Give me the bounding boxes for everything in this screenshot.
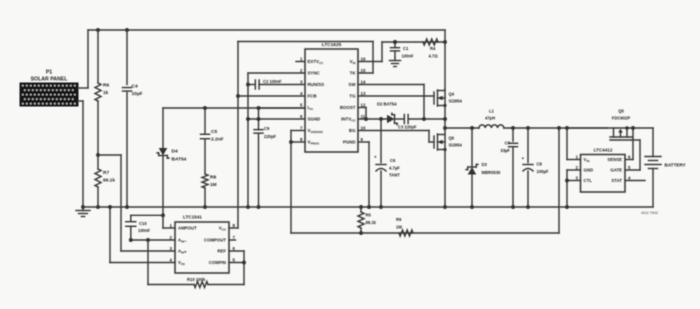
wire: L1 to output rail	[504, 127, 607, 129]
capacitor C3 220pF	[403, 115, 405, 124]
svg-text:AIN−: AIN−	[178, 238, 187, 244]
svg-text:CTL: CTL	[584, 178, 593, 183]
svg-text:4412 TA03: 4412 TA03	[641, 211, 658, 215]
ground (main, left)	[82, 207, 84, 211]
svg-text:Si2954: Si2954	[449, 143, 463, 148]
svg-text:BG: BG	[349, 128, 356, 133]
svg-text:P1: P1	[46, 70, 52, 76]
svg-text:2.2nF: 2.2nF	[211, 137, 224, 143]
svg-text:PGND: PGND	[343, 140, 356, 145]
node: top rail / C4 junction	[125, 28, 129, 32]
svg-text:D2 BAT54: D2 BAT54	[377, 102, 397, 107]
wire: panel positive terminal to top rail	[78, 87, 88, 89]
svg-text:R8: R8	[210, 175, 216, 181]
wire: SW to L1	[445, 127, 479, 129]
svg-text:R4: R4	[430, 46, 436, 51]
svg-text:D3: D3	[482, 162, 488, 167]
battery	[652, 128, 654, 157]
inductor L1 47uH	[479, 125, 504, 128]
svg-text:EXTVCC: EXTVCC	[308, 59, 325, 65]
wire: R10 left riser	[147, 240, 149, 285]
svg-text:R9: R9	[396, 217, 402, 222]
wire: GATE riser	[625, 169, 640, 171]
transistor Q4 Si2954	[444, 89, 446, 207]
resistor R10 100k	[148, 284, 194, 286]
wire: R8 to ground rail	[204, 188, 206, 207]
node: R4 to Q4 drain column	[443, 40, 447, 44]
svg-text:C7: C7	[505, 141, 511, 146]
svg-text:12: 12	[361, 102, 366, 107]
node: top rail dots near C1 column	[393, 40, 397, 44]
svg-text:Q4: Q4	[449, 92, 455, 97]
wire: ground rail	[83, 206, 653, 208]
svg-text:Q5: Q5	[618, 109, 624, 114]
svg-text:33µF: 33µF	[500, 148, 510, 153]
transistor Q6 Si2954	[437, 134, 439, 150]
svg-text:VCC: VCC	[219, 226, 227, 232]
svg-text:16: 16	[361, 56, 366, 61]
node: R8 ground	[203, 205, 207, 209]
wire: CTL stub	[567, 180, 581, 182]
svg-text:Q6: Q6	[449, 136, 455, 141]
wire: FCB to VCC-loop column	[238, 95, 305, 97]
svg-text:MBR0530: MBR0530	[482, 170, 502, 175]
svg-text:SW: SW	[348, 82, 356, 87]
svg-text:R5: R5	[366, 213, 372, 218]
wire: SENSE riser	[625, 159, 633, 161]
svg-text:+: +	[522, 156, 525, 161]
svg-text:FDC602P: FDC602P	[612, 116, 631, 121]
wire: VIN column	[566, 128, 568, 160]
svg-text:15: 15	[361, 68, 366, 73]
svg-text:C5: C5	[211, 129, 217, 135]
wire: AIN- row	[131, 239, 175, 241]
capacitor C4 10uF	[126, 30, 128, 85]
svg-text:+: +	[374, 155, 377, 160]
svg-text:SYNC: SYNC	[308, 71, 321, 76]
svg-text:47µH: 47µH	[485, 116, 495, 121]
svg-text:14: 14	[361, 79, 366, 84]
wire: VOSENSE/VPROG column	[291, 130, 305, 132]
svg-text:10: 10	[361, 125, 366, 130]
svg-text:4.7Ω: 4.7Ω	[429, 54, 439, 59]
wire: PGND to ground rail	[358, 141, 369, 143]
svg-text:VSS: VSS	[178, 260, 185, 266]
svg-text:BOOST: BOOST	[340, 105, 356, 110]
node: LTC4412 VIN tap	[565, 126, 569, 130]
diode D2 BAT54	[387, 115, 395, 124]
resistor R5 98.1k	[359, 205, 363, 209]
diode D4 BAT54	[162, 108, 164, 148]
svg-text:100µF: 100µF	[537, 169, 549, 174]
transistor Q5 FDC602P	[567, 127, 653, 129]
ground (C1)	[394, 57, 396, 61]
capacitor C8 100uF	[526, 126, 530, 130]
node: top rail / R6 divider junction	[96, 28, 100, 32]
svg-text:98.1k: 98.1k	[366, 220, 377, 225]
svg-text:GND: GND	[584, 168, 594, 173]
wire: SYNC column	[248, 72, 305, 74]
node: C6 tap on INTVCC	[379, 117, 383, 121]
capacitor C7 33uF	[511, 126, 515, 130]
svg-text:C10: C10	[139, 221, 147, 226]
svg-text:C9: C9	[264, 126, 270, 131]
svg-text:C2 100nF: C2 100nF	[263, 79, 282, 84]
svg-text:100nF: 100nF	[138, 228, 151, 233]
wire: SW pin riser	[358, 84, 424, 86]
svg-text:FCB: FCB	[308, 94, 317, 99]
node: SW midpoint	[443, 126, 447, 130]
svg-text:AIN+: AIN+	[178, 249, 187, 255]
wire: GND column	[567, 169, 581, 171]
svg-text:BAT54: BAT54	[172, 157, 187, 163]
wire: divider tap to LTC1541 AIN+	[98, 154, 121, 156]
resistor R9 1M	[399, 230, 413, 236]
wire: divider column upper	[97, 30, 99, 83]
wire: panel negative terminal down to ground rail	[78, 100, 83, 102]
solar panel P1	[20, 83, 78, 106]
svg-text:L1: L1	[489, 109, 495, 114]
node: D3 tap	[470, 126, 474, 130]
svg-text:LTC1625: LTC1625	[322, 42, 342, 48]
node: R10 riser on AIN-	[146, 238, 150, 242]
resistor R8 1M	[202, 174, 208, 188]
svg-text:Si2954: Si2954	[449, 99, 463, 104]
svg-text:VIN: VIN	[584, 157, 590, 163]
svg-text:LTC1541: LTC1541	[183, 215, 202, 220]
capacitor C1 100nF	[393, 40, 397, 44]
svg-text:STAT: STAT	[611, 178, 622, 183]
svg-text:C1: C1	[403, 46, 409, 51]
svg-text:SENSE: SENSE	[607, 157, 622, 162]
svg-text:TK: TK	[350, 71, 357, 76]
resistor R7 69.1k	[95, 169, 101, 187]
capacitor C10 100nF	[126, 221, 136, 223]
svg-text:GATE: GATE	[610, 168, 622, 173]
wire: BOOST riser	[358, 107, 366, 109]
wire: FCB-TK top loop	[238, 41, 373, 43]
wire: INTVCC row	[358, 118, 387, 120]
svg-text:220pF: 220pF	[264, 134, 277, 139]
svg-text:10µF: 10µF	[132, 91, 143, 97]
svg-text:1k: 1k	[103, 90, 109, 96]
wire: ITH bar (peak power clamp net)	[163, 107, 305, 109]
svg-text:BATTERY: BATTERY	[665, 163, 686, 168]
wire: BG pin to Q6 gate	[358, 130, 429, 132]
svg-text:VIN: VIN	[350, 59, 356, 65]
wire: AMPOUT to C10 top	[163, 227, 175, 229]
svg-text:R7: R7	[103, 170, 109, 176]
wire: COMPOUT stub	[229, 239, 236, 241]
wire: VCC loop to LTC1541 VCC pin8	[229, 227, 238, 229]
wire: R10 to REF/COMPIN	[243, 251, 245, 285]
svg-text:C4: C4	[132, 84, 138, 90]
wire: VSS to ground rail	[110, 262, 175, 264]
svg-text:1M: 1M	[396, 225, 402, 230]
svg-text:C3 220pF: C3 220pF	[398, 125, 417, 130]
svg-text:D4: D4	[172, 149, 178, 155]
node: SYNC column ground	[246, 205, 250, 209]
wire: divider mid	[97, 101, 99, 155]
svg-text:69.1k: 69.1k	[103, 178, 115, 184]
node: C4 to ground rail	[125, 205, 129, 209]
wire: COMPIN stub	[229, 262, 244, 264]
node: divider tap	[96, 153, 100, 157]
svg-text:13: 13	[361, 91, 366, 96]
wire: VIN pin to input node	[358, 61, 382, 63]
svg-text:VOSENSE: VOSENSE	[308, 128, 323, 134]
wire: TG pin to Q4 gate	[358, 95, 434, 97]
wire: ITH pin lead	[259, 107, 306, 109]
svg-text:REF: REF	[217, 249, 226, 254]
svg-text:R6: R6	[103, 83, 109, 89]
capacitor C9 220pF	[257, 106, 261, 110]
wire: top rail corner down to Q4	[444, 30, 446, 89]
wire: output to R9 riser	[557, 126, 561, 130]
resistor R4 4.7ohm	[423, 39, 438, 45]
svg-text:VPROG: VPROG	[308, 140, 320, 146]
op-amp U3 LTC4412 body	[581, 155, 626, 193]
op-amp/controller U1 LTC1625 body	[305, 49, 358, 152]
svg-text:100nF: 100nF	[402, 54, 415, 59]
svg-text:COMPOUT: COMPOUT	[204, 238, 226, 243]
wire: SGND to SYNC column	[248, 118, 305, 120]
svg-text:SGND: SGND	[308, 117, 321, 122]
svg-text:SOLAR PANEL: SOLAR PANEL	[31, 77, 69, 83]
capacitor C6 4.7uF TANT	[380, 119, 382, 163]
svg-text:1M: 1M	[210, 182, 217, 188]
svg-text:R10 100k: R10 100k	[187, 277, 206, 282]
svg-text:4.7µF: 4.7µF	[389, 166, 400, 171]
svg-text:INTVCC: INTVCC	[341, 117, 356, 123]
wire: STAT stub	[625, 180, 645, 182]
svg-text:LTC4412: LTC4412	[594, 148, 613, 153]
wire: TK pin lead	[358, 72, 373, 74]
svg-text:ITH: ITH	[308, 105, 313, 111]
wire: top rail	[88, 29, 445, 31]
svg-text:TANT: TANT	[389, 173, 400, 178]
svg-text:C8: C8	[537, 162, 543, 167]
capacitor C5 2.2nF	[204, 108, 206, 134]
comparator U2 LTC1541 body	[175, 222, 229, 273]
wire: R7 leads	[97, 155, 99, 169]
svg-text:RUN/SS: RUN/SS	[308, 82, 325, 87]
resistor R6 1k	[95, 83, 101, 101]
capacitor C2 100nF on RUN/SS	[246, 83, 250, 87]
svg-text:TG: TG	[349, 94, 356, 99]
node: C5 column on ITH bar	[203, 106, 207, 110]
node: Q6 source ground	[443, 205, 447, 209]
svg-text:COMPIN: COMPIN	[209, 260, 226, 265]
pin 1 EXTVCC stub	[296, 61, 305, 63]
node: R7 to ground rail	[96, 205, 100, 209]
svg-text:AMPOUT: AMPOUT	[178, 226, 197, 231]
diode D3 MBR0530	[471, 128, 473, 167]
svg-text:C6: C6	[390, 158, 396, 163]
